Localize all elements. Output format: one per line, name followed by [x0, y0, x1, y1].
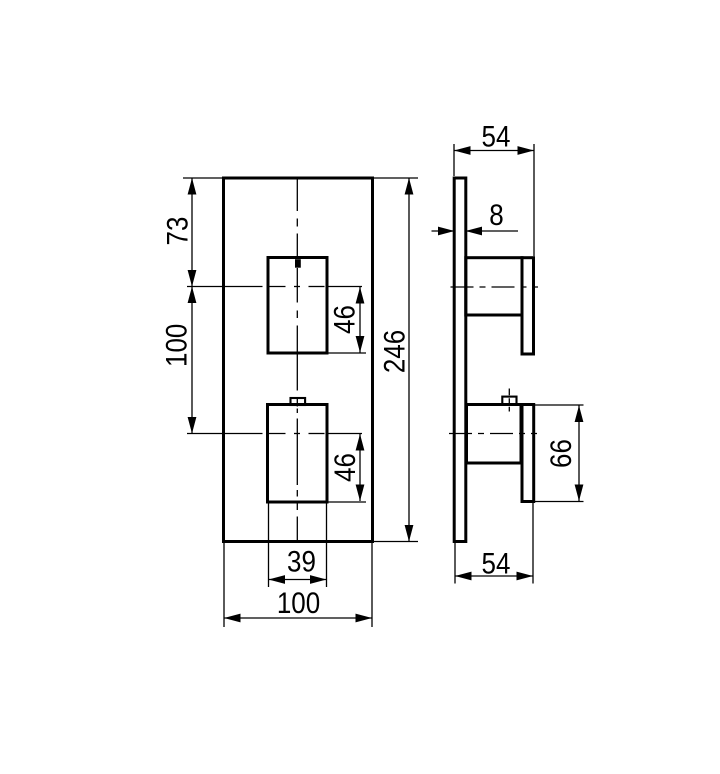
label 100 (left)	[160, 324, 193, 367]
lower handle face bar (side view)	[522, 405, 534, 502]
svg-text:46: 46	[328, 453, 361, 482]
side view wall plate	[454, 178, 466, 542]
extension lines for 54 top	[453, 144, 455, 176]
extension lines for 39	[268, 502, 270, 587]
upper knob horizontal centerline / extension line y=286.5	[187, 286, 263, 288]
label 46 lower	[328, 453, 361, 482]
dimension 54 top line	[454, 150, 534, 152]
svg-text:100: 100	[160, 324, 193, 367]
lower knob top tab	[291, 398, 306, 405]
top extension line (front view)	[183, 177, 224, 179]
lower handle top tab (side view)	[502, 397, 516, 405]
front view plate outline	[224, 178, 373, 542]
lower handle body (side view)	[467, 405, 522, 464]
lower knob horizontal centerline / extension line y=433.5	[187, 433, 263, 435]
bottom-right extension line for 246	[373, 541, 419, 543]
dimension 73 line	[191, 178, 193, 287]
upper handle centerline (side view)	[451, 286, 539, 288]
label 66	[544, 439, 577, 468]
upper knob (front view)	[268, 258, 327, 354]
label 8	[489, 198, 503, 231]
upper handle body (side view)	[466, 258, 522, 315]
extension lines for 66	[533, 404, 584, 406]
lower knob (front view)	[268, 405, 328, 503]
dimension 46 lower line	[359, 434, 361, 501]
dimension 100 line (left)	[191, 287, 193, 434]
lower handle centerline (side view)	[449, 433, 537, 435]
extension lines for 54 bottom	[454, 542, 456, 584]
dimension 54 bottom line	[455, 575, 533, 577]
dimension 8 arrows	[432, 230, 455, 232]
label 73	[161, 217, 194, 246]
dimension 46 upper line	[359, 287, 361, 353]
svg-text:100: 100	[277, 586, 320, 619]
dimension 100 bottom line	[224, 617, 372, 619]
label 46 upper	[328, 305, 361, 334]
svg-text:54: 54	[482, 120, 511, 153]
svg-text:66: 66	[544, 439, 577, 468]
dimension 39 line	[269, 579, 327, 581]
label 100 bottom	[277, 586, 320, 619]
label 246	[378, 330, 411, 373]
svg-text:73: 73	[161, 217, 194, 246]
lower handle tab centerline tick (side view)	[508, 389, 510, 412]
svg-text:8: 8	[489, 198, 503, 231]
svg-text:246: 246	[378, 330, 411, 373]
front view vertical centerline	[296, 178, 298, 542]
dimension 246 line	[408, 178, 410, 542]
label 54 top	[482, 120, 511, 153]
extension lines for 100 bottom	[223, 542, 225, 628]
extension for 46 lower	[327, 501, 366, 503]
svg-text:54: 54	[482, 547, 511, 580]
upper handle face bar (side view)	[522, 258, 534, 354]
svg-text:39: 39	[287, 545, 316, 578]
extension for 46 upper	[327, 352, 366, 354]
upper knob indicator mark	[295, 259, 301, 268]
dimension 66 line	[578, 405, 580, 502]
label 54 bottom	[482, 547, 511, 580]
label 39	[287, 545, 316, 578]
svg-text:46: 46	[328, 305, 361, 334]
